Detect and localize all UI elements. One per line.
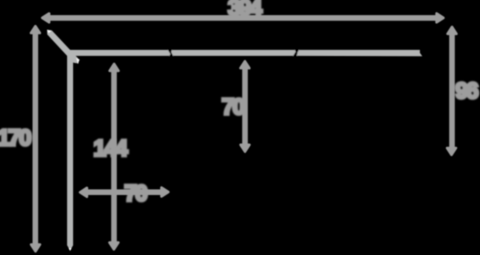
dimension line 170 (left vertical) (33, 31, 39, 247)
dimension line 70 (horizontal lower) (85, 189, 164, 195)
wall seam at x=296 (295, 49, 300, 54)
dimension line 96 (right vertical) (449, 32, 455, 151)
wall mitre highlight (diagonal top tip) (47, 30, 51, 33)
wall seam at x=171 (168, 49, 173, 54)
wall mitre highlight (corner tail) (76, 58, 79, 64)
svg-text:70: 70 (222, 94, 245, 120)
wall horizontal segment 2 (171, 50, 296, 56)
dimension line 144 (vertical) (111, 69, 117, 245)
svg-text:394: 394 (228, 0, 263, 21)
wall mitre highlight (bottom tip) (69, 248, 72, 251)
svg-text:96: 96 (455, 77, 478, 103)
svg-text:170: 170 (0, 124, 31, 150)
wall horizontal segment 3 (297, 50, 423, 56)
wall vertical segment (67, 53, 73, 251)
dimension line 394 (top horizontal) (47, 15, 439, 21)
svg-text:70: 70 (124, 180, 147, 206)
wall diagonal segment (top-left chamfer) (47, 30, 79, 64)
dimension line 70 (vertical middle) (242, 66, 248, 147)
svg-text:144: 144 (93, 135, 128, 161)
wall horizontal segment 1 (70, 50, 171, 56)
